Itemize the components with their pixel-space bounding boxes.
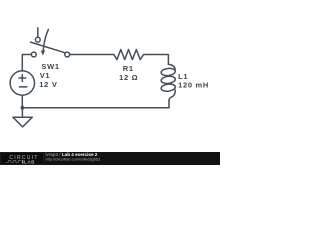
svg-text:R1: R1: [123, 64, 134, 73]
svg-text:SW1: SW1: [41, 62, 59, 71]
wire source top to switch left terminal: [22, 55, 31, 72]
svg-text:120 mH: 120 mH: [178, 81, 209, 90]
ground: [21, 108, 23, 118]
switch SW1 blade: [31, 42, 65, 53]
voltage source V1: [10, 71, 34, 95]
switch SW1 actuation arrow: [43, 29, 48, 50]
logo waveform: [6, 161, 21, 163]
switch SW1 top stub: [37, 28, 39, 38]
wire switch to resistor: [70, 54, 114, 56]
svg-text:LAB: LAB: [24, 160, 35, 165]
inductor L1 coil: [168, 64, 175, 70]
svg-text:12 V: 12 V: [39, 80, 57, 89]
svg-text:V1: V1: [40, 71, 51, 80]
wire resistor to inductor: [144, 55, 169, 65]
logo LAB block glyph: [22, 160, 23, 163]
inductor bottom lead: [168, 101, 170, 108]
CircuitLab logo box: [1, 153, 44, 165]
svg-text:http://circuitlab.com/c/8kd3gh: http://circuitlab.com/c/8kd3gh53: [46, 157, 101, 162]
junction dot: [21, 106, 25, 110]
wire source bottom: [21, 95, 23, 108]
svg-text:12 Ω: 12 Ω: [119, 73, 138, 82]
bottom wire: [22, 107, 169, 109]
switch SW1 terminals: [35, 37, 40, 42]
resistor R1: [114, 50, 144, 60]
bottom black bar: [0, 152, 220, 165]
